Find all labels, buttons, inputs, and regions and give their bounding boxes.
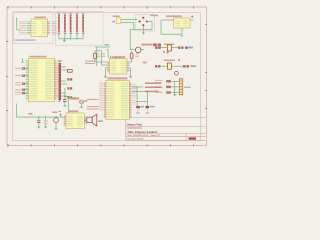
svg-text:Hanno Visti: Hanno Visti xyxy=(127,122,142,126)
svg-text:Sheet: 1/1: Sheet: 1/1 xyxy=(151,134,161,137)
svg-text:Date: 11/02/2013 19:23: Date: 11/02/2013 19:23 xyxy=(127,134,149,137)
svg-text:Document Number:: Document Number: xyxy=(127,138,145,141)
svg-text:Title: Chassis Control: Title: Chassis Control xyxy=(127,130,157,134)
